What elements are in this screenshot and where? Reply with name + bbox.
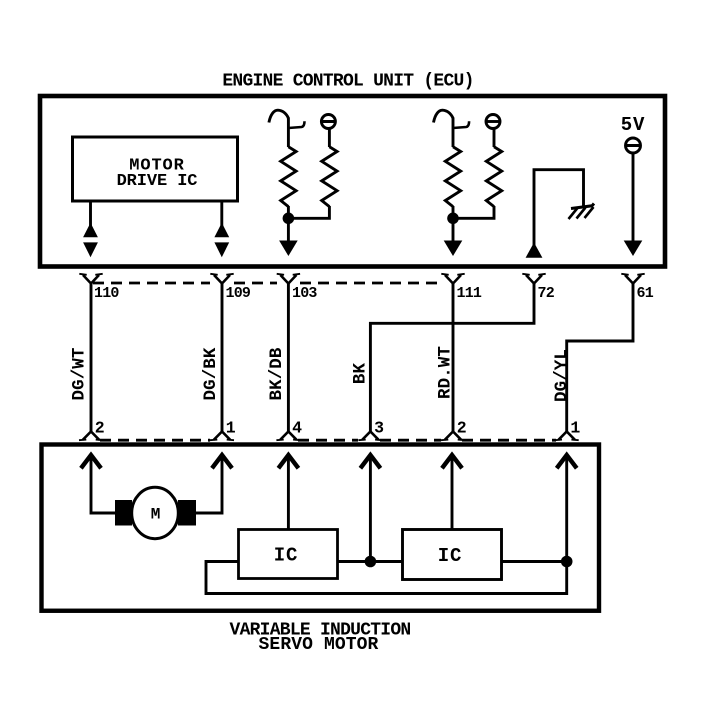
connector pin 1 (motor side) <box>210 432 234 441</box>
dashed connector line (103-111) <box>300 282 441 285</box>
motor M body <box>132 487 179 538</box>
IC1 box <box>239 530 338 579</box>
wire: IC1 to junction dot <box>338 560 371 563</box>
wire: right resistor bottom <box>288 206 329 218</box>
curl side hook <box>288 121 304 128</box>
terminal circle bar <box>485 120 501 123</box>
curl side hook <box>453 121 469 128</box>
wire: IC2 to right junction <box>502 560 567 563</box>
connector pin 109 (ECU side) <box>210 274 233 284</box>
svg-text:5V: 5V <box>621 114 645 136</box>
chassis ground symbol <box>569 204 595 220</box>
resistor (right) <box>486 147 501 207</box>
connector pin 4 (servo side) <box>276 432 300 441</box>
terminal circle bar <box>320 120 336 123</box>
arrowhead up (pin 2 into box) <box>82 455 99 467</box>
wire: pin 3 to junction <box>369 456 372 562</box>
terminal circle (theta) <box>321 115 335 129</box>
ground branch wire (pin 72) <box>534 170 584 257</box>
resistor network A (above pin 103) <box>269 110 337 256</box>
connector pin 1 (servo side, right) <box>555 432 579 441</box>
internal source curl symbol <box>269 110 289 122</box>
wire: pin 2 to motor left brush <box>91 456 116 513</box>
svg-text:DRIVE IC: DRIVE IC <box>117 172 198 191</box>
wire: curl stem <box>287 118 290 148</box>
dashed connector line (2-1 motor) <box>100 439 210 442</box>
wire BK (72 to pin 3) <box>370 284 534 432</box>
arrowhead up (pin 72 ground) <box>526 243 543 258</box>
wire: junction to arrow <box>287 206 290 242</box>
dashed connector line (110-109) <box>93 282 210 285</box>
svg-text:1: 1 <box>570 419 580 438</box>
5V terminal bar <box>625 144 642 147</box>
connector pin 111 (ECU side) <box>441 274 464 284</box>
resistor (left, pin 103 pull-up) <box>281 147 296 207</box>
connector pin 3 (servo side) <box>358 432 382 441</box>
terminal circle (theta) <box>486 115 500 129</box>
svg-text:61: 61 <box>637 285 654 302</box>
bidirectional arrowhead down (U1 right pin) <box>214 242 229 257</box>
svg-text:2: 2 <box>457 419 467 438</box>
svg-text:3: 3 <box>374 419 384 438</box>
wire: junction to arrow <box>452 206 455 242</box>
resistor (right) <box>322 147 337 207</box>
wire: 5V to pin 61 <box>632 153 635 242</box>
dashed connector line (3-2) <box>380 439 441 442</box>
arrowhead up (pin 1 into box) <box>213 455 230 467</box>
svg-text:ENGINE CONTROL UNIT (ECU): ENGINE CONTROL UNIT (ECU) <box>222 72 473 92</box>
bidirectional arrowhead up (U1 right pin) <box>214 223 229 238</box>
junction dot <box>447 213 459 225</box>
svg-text:2: 2 <box>95 419 105 438</box>
svg-text:RD.WT: RD.WT <box>435 346 455 399</box>
arrowhead down (pin 61) <box>624 241 643 257</box>
svg-text:109: 109 <box>226 285 251 302</box>
arrowhead down to pin 111 <box>444 241 463 257</box>
junction dot (pin 3 net) <box>365 556 377 568</box>
svg-text:111: 111 <box>457 285 482 302</box>
arrowhead down to pin 103 <box>279 241 298 257</box>
motor M left brush <box>115 500 132 526</box>
wire DG/WT (110 to motor pin 2) <box>90 284 93 432</box>
bidirectional arrowhead up (U1 left pin) <box>83 223 98 238</box>
resistor network B (above pin 111) <box>434 110 502 256</box>
junction dot (pin 1 net) <box>561 556 573 568</box>
motor M right brush <box>178 500 196 526</box>
IC2 box <box>403 530 502 580</box>
connector pin 103 (ECU side) <box>277 274 300 284</box>
svg-text:IC: IC <box>438 545 463 567</box>
wire DG/YL (61 to pin 1) <box>567 284 633 432</box>
wire RD.WT (111 to pin 2) <box>452 284 455 432</box>
junction dot <box>283 213 295 225</box>
connector pin 2 (motor side) <box>79 432 103 441</box>
wire: right resistor bottom <box>453 206 494 218</box>
svg-text:SERVO MOTOR: SERVO MOTOR <box>259 635 379 655</box>
svg-text:1: 1 <box>226 419 236 438</box>
svg-text:DG/YL: DG/YL <box>552 349 572 402</box>
wire BK/DB (103 to pin 4) <box>287 284 290 432</box>
svg-text:DG/WT: DG/WT <box>70 347 90 400</box>
arrowhead up (pin 2 into box right) <box>443 455 460 467</box>
wire: pin 1 to right junction <box>565 456 568 562</box>
wire: right resistor top stem <box>328 129 331 148</box>
svg-text:BK: BK <box>350 363 370 385</box>
5V terminal circle <box>626 138 641 153</box>
dashed connector line (2-1 right) <box>462 439 556 442</box>
bidirectional arrowhead down (U1 left pin) <box>83 242 98 257</box>
svg-text:IC: IC <box>274 545 299 567</box>
wire: right resistor top stem <box>493 129 496 148</box>
servo motor box <box>42 445 600 611</box>
wire DG/BK (109 to motor pin 1) <box>221 284 224 432</box>
internal source curl symbol <box>434 110 454 122</box>
arrowhead up (pin 4 into box) <box>280 455 297 467</box>
connector pin 110 (ECU side) <box>79 274 102 284</box>
svg-text:72: 72 <box>538 285 555 302</box>
wire: pin 4 to IC1 <box>287 456 290 530</box>
svg-text:103: 103 <box>292 285 317 302</box>
motor drive IC U1 <box>73 137 238 201</box>
resistor (left, pin 111 pull-up) <box>445 147 460 207</box>
wire: U1 left pin <box>89 202 92 227</box>
wire: IC1 feedback loop <box>206 562 567 594</box>
dashed connector line (109-103) <box>234 282 277 285</box>
svg-text:M: M <box>151 506 161 524</box>
arrowhead up (pin 1 into box right) <box>558 455 575 467</box>
dashed connector line (4-3) <box>298 439 358 442</box>
wire: U1 right pin <box>220 202 223 227</box>
svg-text:4: 4 <box>292 419 302 438</box>
svg-text:110: 110 <box>94 285 119 302</box>
connector pin 2 (servo side, right) <box>441 432 465 441</box>
svg-text:BK/DB: BK/DB <box>267 347 287 400</box>
ECU box <box>40 96 665 267</box>
wire: junction to IC2 <box>370 560 402 563</box>
connector pin 72 (ECU side) <box>522 274 545 284</box>
svg-text:DG/BK: DG/BK <box>201 347 221 400</box>
arrowhead up (pin 3 into box) <box>362 455 379 467</box>
connector pin 61 (ECU side) <box>621 274 644 284</box>
wire: pin 2 to IC2 <box>451 456 454 530</box>
wire: pin 1 to motor right brush <box>196 456 223 513</box>
wire: curl stem <box>452 118 455 148</box>
